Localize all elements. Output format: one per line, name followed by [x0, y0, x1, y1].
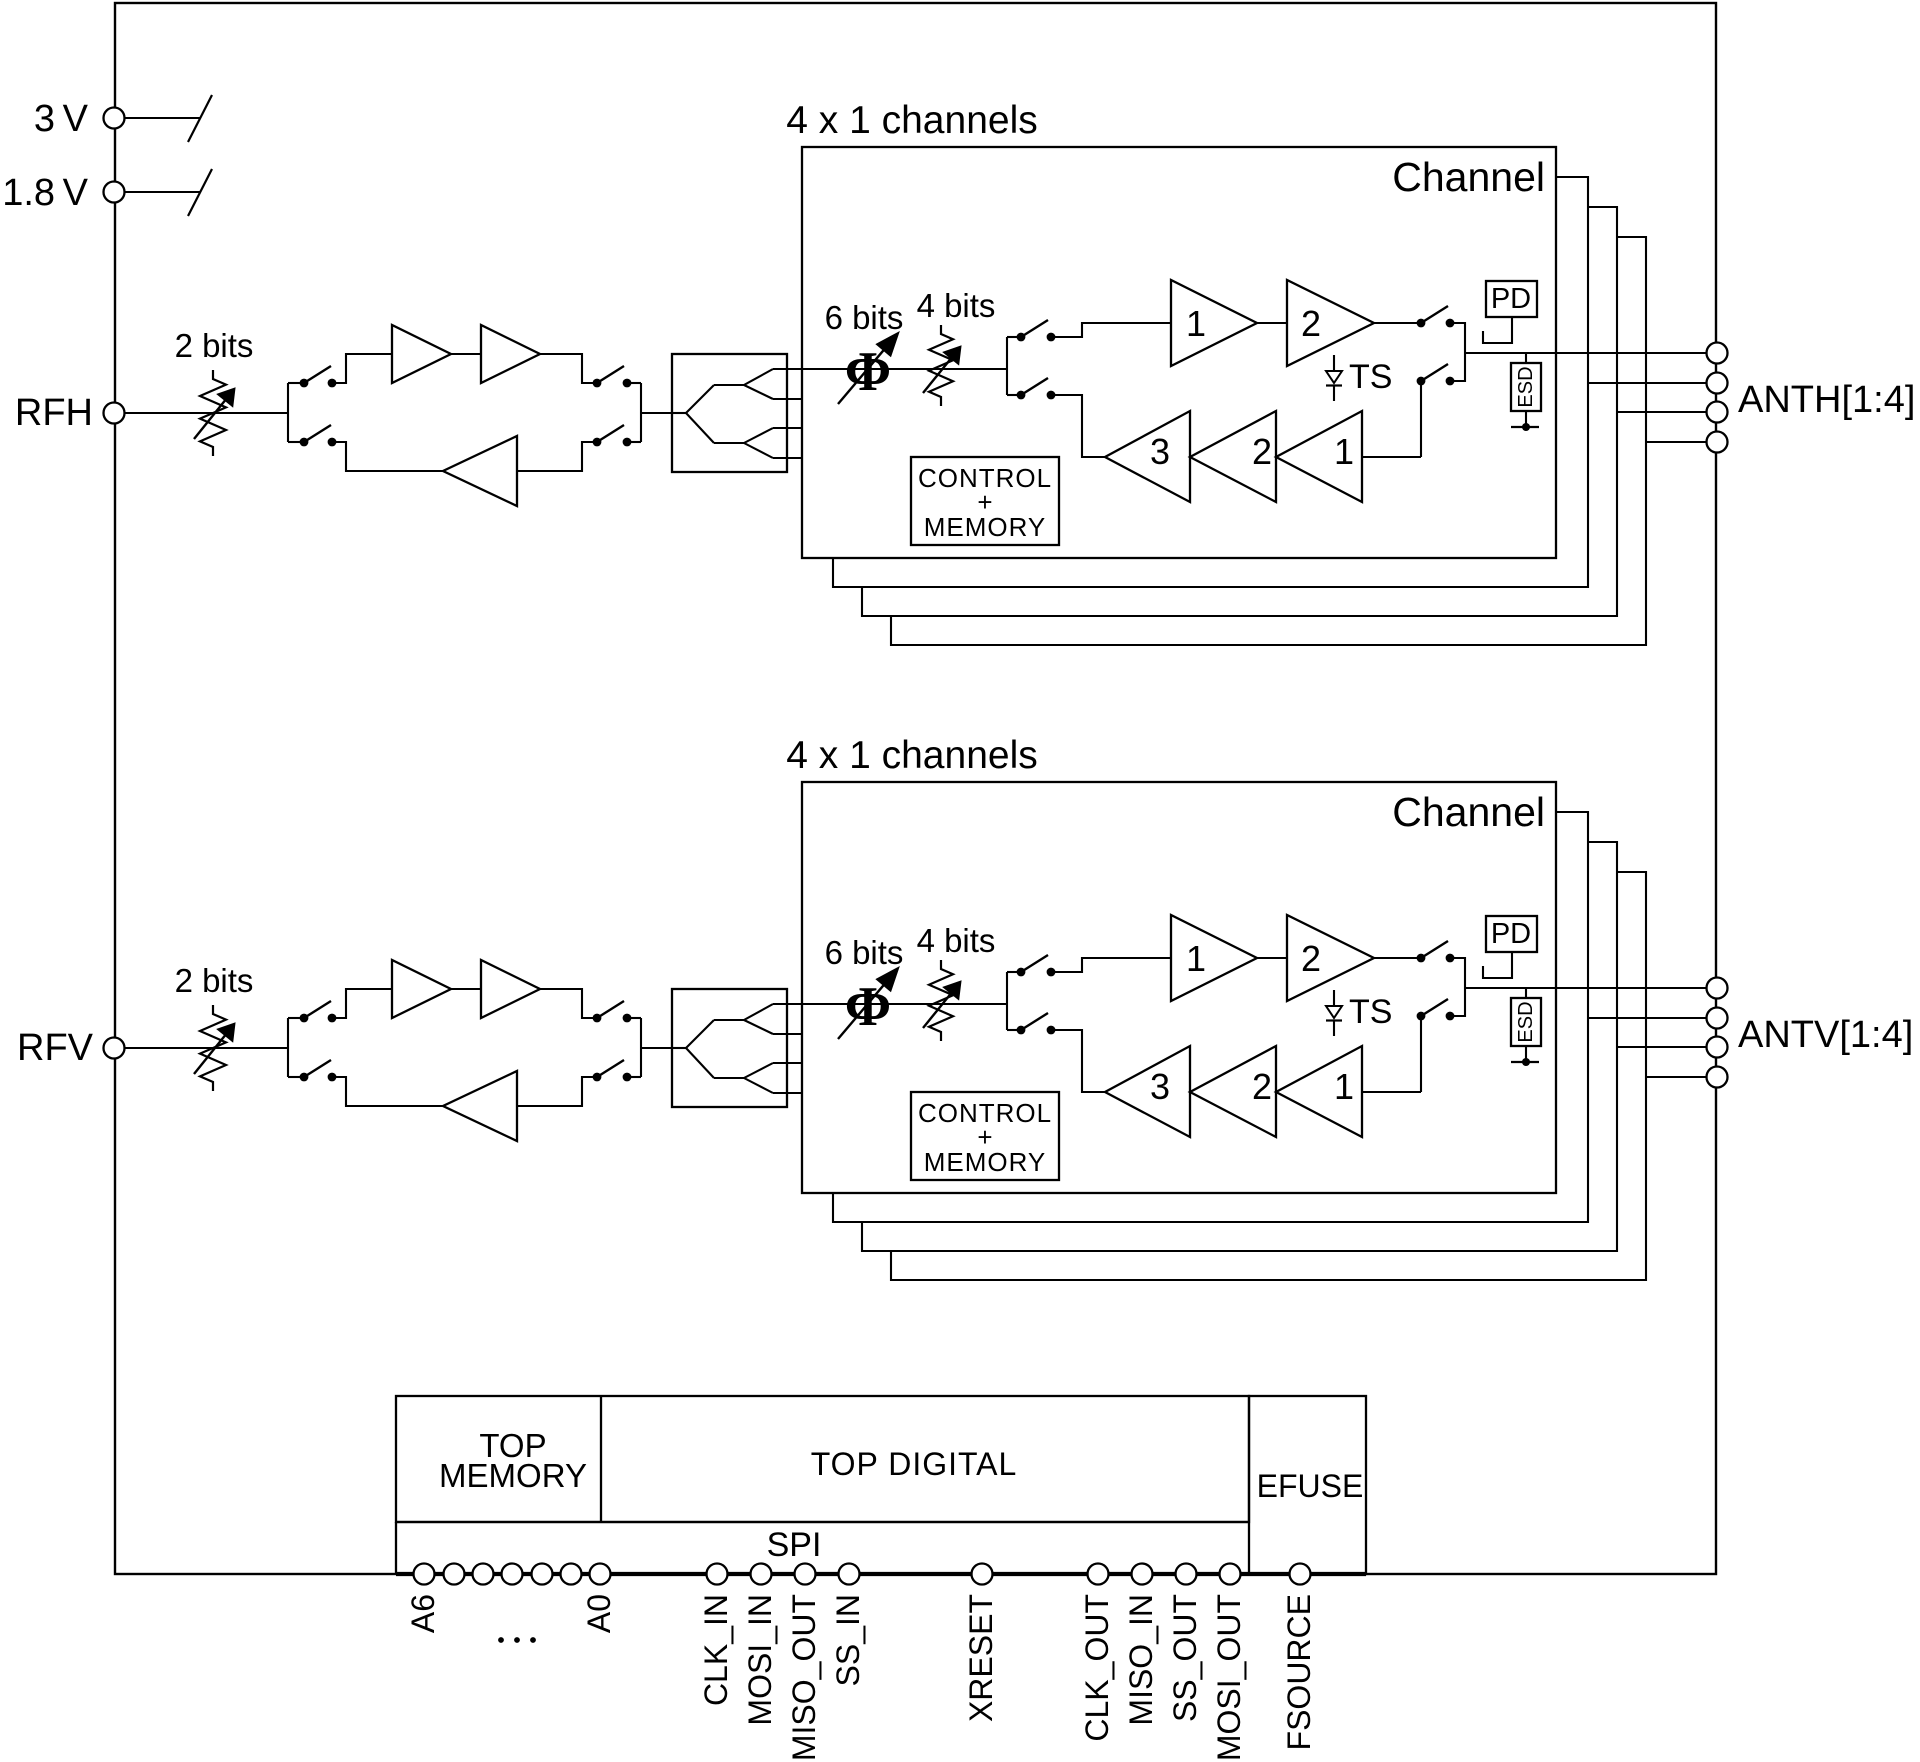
- pin RFH circle: [104, 403, 125, 424]
- svg-text:Channel: Channel: [1392, 154, 1545, 200]
- svg-text:Channel: Channel: [1392, 789, 1545, 835]
- pin ANT2 H: [1707, 373, 1728, 394]
- label FSOURCE: [1281, 1594, 1317, 1750]
- label TOP: [479, 1427, 546, 1464]
- ESD box H: [1511, 363, 1541, 411]
- pin ANT2 V: [1707, 1008, 1728, 1029]
- svg-text:PD: PD: [1491, 918, 1531, 950]
- switch S4 arm H: [597, 425, 624, 442]
- label RX3 '3' H: [1150, 431, 1170, 472]
- label XRESET: [963, 1594, 999, 1722]
- label ESD V: [1515, 1001, 1537, 1042]
- svg-text:1: 1: [1186, 303, 1206, 344]
- switch S3 arm V: [304, 1060, 331, 1077]
- amplifier A2 V: [481, 960, 540, 1018]
- svg-text:4 bits: 4 bits: [917, 287, 996, 324]
- pin A6 circle: [414, 1564, 435, 1585]
- label Channel H: [1392, 154, 1545, 200]
- channel box H: [802, 147, 1556, 558]
- pin ANT4 V: [1707, 1067, 1728, 1088]
- svg-text:SS_OUT: SS_OUT: [1167, 1594, 1203, 1722]
- switch S2 dots V: [593, 1014, 632, 1023]
- switch S1 arm V: [304, 1001, 331, 1018]
- svg-text:3: 3: [1150, 1066, 1170, 1107]
- svg-text:2: 2: [1301, 303, 1321, 344]
- svg-text:2 bits: 2 bits: [175, 962, 254, 999]
- pin 3V circle: [104, 108, 125, 129]
- amplifier A1 H: [392, 325, 451, 383]
- stacked channel 2 H: [833, 177, 1588, 587]
- wire S4 out H: [627, 441, 641, 443]
- channel box V: [802, 782, 1556, 1193]
- ESD box V: [1511, 998, 1541, 1046]
- label RFH: [15, 392, 93, 434]
- wire antenna line 1 H: [1465, 352, 1706, 354]
- label RX1 '1' V: [1334, 1066, 1354, 1107]
- pin 1.8V circle: [104, 182, 125, 203]
- switch S5 arm V: [1021, 955, 1048, 972]
- splitter tree V: [672, 1004, 773, 1093]
- pin XRESET circle: [972, 1564, 993, 1585]
- wire S2 out V: [627, 1017, 641, 1019]
- label dots ...: [498, 1637, 536, 1643]
- switch S1 dots V: [300, 1014, 337, 1023]
- amplifier RX1 V: [1276, 1046, 1362, 1137]
- efuse box: [1249, 1396, 1366, 1574]
- wire ESD stub H: [1525, 353, 1527, 363]
- switch S6 arm H: [1421, 306, 1448, 323]
- label 2 bits V: [175, 962, 254, 999]
- label 6 bits H: [825, 299, 904, 336]
- svg-text:TS: TS: [1349, 993, 1392, 1031]
- attenuator 4-bit V: [923, 960, 961, 1041]
- pin SS_IN circle: [839, 1564, 860, 1585]
- label A0: [581, 1594, 617, 1633]
- switch S4 dots H: [593, 438, 632, 447]
- wire antenna line 4 H: [1646, 441, 1706, 443]
- switch S7 dots V: [1017, 1026, 1056, 1035]
- svg-text:A0: A0: [581, 1594, 617, 1633]
- switch S8 arm V: [1421, 999, 1448, 1016]
- switch S5 arm H: [1021, 320, 1048, 337]
- stacked channel 2 V: [833, 812, 1588, 1222]
- label CLK_OUT: [1079, 1594, 1115, 1742]
- amplifier A1 V: [392, 960, 451, 1018]
- switch S3 arm H: [304, 425, 331, 442]
- attenuator 4-bit H: [923, 325, 961, 406]
- label MEMORY V: [924, 1147, 1047, 1177]
- label TS V: [1349, 993, 1392, 1031]
- wire splitter out4 H: [773, 457, 802, 459]
- svg-text:3: 3: [1150, 431, 1170, 472]
- label SS_OUT: [1167, 1594, 1203, 1722]
- wire TR bottom stub V: [1007, 1029, 1021, 1031]
- pin address circle: [532, 1564, 553, 1585]
- label MISO_OUT: [786, 1594, 822, 1761]
- svg-text:1: 1: [1186, 938, 1206, 979]
- wire S4 out V: [627, 1076, 641, 1078]
- divider top-memory/top-digital: [600, 1396, 602, 1522]
- wire TX1-TX2 V: [1257, 957, 1287, 959]
- svg-text:FSOURCE: FSOURCE: [1281, 1594, 1317, 1750]
- wire antenna line 1 V: [1465, 987, 1706, 989]
- switch S8 dots H: [1417, 377, 1455, 386]
- switch S2 dots H: [593, 379, 632, 388]
- stacked channel 3 V: [862, 842, 1617, 1251]
- wire RX1 in V: [1362, 1091, 1421, 1093]
- svg-text:1: 1: [1334, 431, 1354, 472]
- wire to splitter V: [641, 1047, 672, 1049]
- label RX1 '1' H: [1334, 431, 1354, 472]
- wire S3 to bypass amp H: [332, 442, 443, 471]
- wire S5 to TX amp V: [1051, 958, 1171, 972]
- svg-text:4 x 1 channels: 4 x 1 channels: [786, 734, 1038, 777]
- label TX2 '2' H: [1301, 303, 1321, 344]
- svg-text:1: 1: [1334, 1066, 1354, 1107]
- label MOSI_OUT: [1211, 1594, 1247, 1761]
- switch S2 arm H: [597, 366, 624, 383]
- svg-text:SPI: SPI: [767, 1526, 822, 1564]
- wire TX2 out H: [1374, 322, 1421, 324]
- pin A0 circle: [590, 1564, 611, 1585]
- amplifier RX2 V: [1190, 1046, 1276, 1137]
- wire stub V: [288, 1017, 304, 1019]
- pin ANT3 V: [1707, 1037, 1728, 1058]
- wire splitter out3 H: [773, 427, 802, 429]
- svg-text:EFUSE: EFUSE: [1257, 1468, 1364, 1504]
- label MEMORY H: [924, 512, 1047, 542]
- svg-text:2: 2: [1301, 938, 1321, 979]
- wire A3 in H: [517, 442, 597, 471]
- label SPI: [767, 1526, 822, 1564]
- pin address circle: [502, 1564, 523, 1585]
- wire S6 to node V: [1450, 958, 1465, 988]
- label PD H: [1491, 283, 1531, 315]
- wire stub bottom H: [288, 441, 304, 443]
- label MEMORY (top): [439, 1457, 587, 1494]
- label RX3 '3' V: [1150, 1066, 1170, 1107]
- diode TS V: [1326, 990, 1342, 1036]
- svg-text:MISO_OUT: MISO_OUT: [786, 1594, 822, 1761]
- power detector PD box H: [1486, 281, 1537, 317]
- svg-text:MOSI_OUT: MOSI_OUT: [1211, 1594, 1247, 1761]
- switch S7 arm V: [1021, 1013, 1048, 1030]
- amplifier RX3 H: [1105, 411, 1190, 502]
- switch S5 dots V: [1017, 968, 1056, 977]
- label Channel V: [1392, 789, 1545, 835]
- svg-text:CLK_OUT: CLK_OUT: [1079, 1594, 1115, 1742]
- pin MISO_IN circle: [1132, 1564, 1153, 1585]
- stacked channel 4 V: [891, 872, 1646, 1280]
- wire stub TR top H: [1007, 336, 1021, 338]
- label plus V: [977, 1122, 992, 1152]
- pin ANT1 H: [1707, 343, 1728, 364]
- stacked channel 3 H: [862, 207, 1617, 616]
- label PD V: [1491, 918, 1531, 950]
- label 4 x 1 channels V: [786, 734, 1038, 777]
- svg-text:TOP DIGITAL: TOP DIGITAL: [811, 1446, 1018, 1482]
- switch S4 arm V: [597, 1060, 624, 1077]
- label CONTROL H: [918, 463, 1052, 493]
- label SS_IN: [830, 1594, 866, 1686]
- label 2 bits H: [175, 327, 254, 364]
- wire A2 out V: [540, 989, 597, 1018]
- wire antenna line 4 V: [1646, 1076, 1706, 1078]
- label RX2 '2' V: [1252, 1066, 1272, 1107]
- wire to splitter H: [641, 412, 672, 414]
- label TX2 '2' V: [1301, 938, 1321, 979]
- ground V: [1511, 1058, 1539, 1066]
- svg-text:1.8 V: 1.8 V: [2, 172, 88, 214]
- switch block right vertical V: [640, 1018, 642, 1077]
- wire S8 to node H: [1450, 353, 1465, 381]
- wire S8 to node V: [1450, 988, 1465, 1016]
- wire RX riser H: [1420, 381, 1422, 457]
- switch S3 dots H: [300, 438, 337, 447]
- control memory box H: [911, 457, 1059, 545]
- label 4 bits V: [917, 922, 996, 959]
- wire TX1-TX2 H: [1257, 322, 1287, 324]
- wire A2 out H: [540, 354, 597, 383]
- PD probe hook H: [1483, 317, 1512, 343]
- wire ESD to ground V: [1525, 1046, 1527, 1062]
- wire S7 to RX amp H: [1051, 395, 1105, 457]
- label TS H: [1349, 358, 1392, 396]
- amplifier A3 bypass H: [443, 436, 517, 506]
- wire 1.8V stub: [125, 191, 200, 193]
- wire antenna line 2 V: [1588, 1017, 1706, 1019]
- switch S8 dots V: [1417, 1012, 1455, 1021]
- wire RFH input: [125, 412, 288, 414]
- wire A1-A2 V: [451, 988, 481, 990]
- svg-text:MISO_IN: MISO_IN: [1123, 1594, 1159, 1726]
- svg-text:SS_IN: SS_IN: [830, 1594, 866, 1686]
- wire S1 to amp H: [332, 354, 392, 383]
- spi bar: [396, 1522, 1249, 1574]
- stacked channel 4 H: [891, 237, 1646, 645]
- pin address circle: [561, 1564, 582, 1585]
- pin CLK_IN circle: [707, 1564, 728, 1585]
- wire antenna line 3 V: [1617, 1046, 1706, 1048]
- attenuator 2-bit H: [194, 370, 235, 456]
- svg-text:4 x 1 channels: 4 x 1 channels: [786, 99, 1038, 142]
- label ANTH[1:4] H: [1738, 379, 1915, 421]
- wire S1 to amp V: [332, 989, 392, 1018]
- pin MOSI_OUT circle: [1220, 1564, 1241, 1585]
- svg-text:2 bits: 2 bits: [175, 327, 254, 364]
- phase shifter V: [838, 967, 899, 1039]
- wire S3 to bypass amp V: [332, 1077, 443, 1106]
- wire RX riser V: [1420, 1016, 1422, 1092]
- svg-text:2: 2: [1252, 431, 1272, 472]
- label CLK_IN: [698, 1594, 734, 1706]
- amplifier RX1 H: [1276, 411, 1362, 502]
- switch S3 dots V: [300, 1073, 337, 1082]
- pin CLK_OUT circle: [1088, 1564, 1109, 1585]
- svg-text:XRESET: XRESET: [963, 1594, 999, 1722]
- svg-text:ESD: ESD: [1515, 1001, 1537, 1042]
- PD probe hook V: [1483, 952, 1512, 978]
- wire S5 to TX amp H: [1051, 323, 1171, 337]
- bus slash 1.8V: [188, 169, 212, 216]
- svg-text:CLK_IN: CLK_IN: [698, 1594, 734, 1706]
- pin ANT1 V: [1707, 978, 1728, 999]
- TR switch vertical V: [1006, 972, 1008, 1030]
- label TX1 '1' H: [1186, 303, 1206, 344]
- switch S6 arm V: [1421, 941, 1448, 958]
- label A6: [405, 1594, 441, 1633]
- pin MOSI_IN circle: [751, 1564, 772, 1585]
- bus slash 3V: [188, 95, 212, 142]
- pin ANT3 H: [1707, 402, 1728, 423]
- switch S2 arm V: [597, 1001, 624, 1018]
- wire RX1 in H: [1362, 456, 1421, 458]
- wire A3 in V: [517, 1077, 597, 1106]
- pin address circle: [444, 1564, 465, 1585]
- label 1.8 V: [2, 172, 88, 214]
- label 4 x 1 channels H: [786, 99, 1038, 142]
- switch S1 dots H: [300, 379, 337, 388]
- wire S2 out H: [627, 382, 641, 384]
- svg-text:MEMORY: MEMORY: [439, 1457, 587, 1494]
- wire splitter out1 H: [773, 368, 802, 370]
- wire TX2 out V: [1374, 957, 1421, 959]
- switch block left vertical H: [287, 383, 289, 442]
- switch S7 arm H: [1021, 378, 1048, 395]
- svg-text:ANTH[1:4]: ANTH[1:4]: [1738, 379, 1915, 421]
- wire RFV input: [125, 1047, 288, 1049]
- switch S8 arm H: [1421, 364, 1448, 381]
- label plus H: [977, 487, 992, 517]
- wire stub H: [288, 382, 304, 384]
- svg-text:4 bits: 4 bits: [917, 922, 996, 959]
- svg-text:PD: PD: [1491, 283, 1531, 315]
- amplifier RX3 V: [1105, 1046, 1190, 1137]
- label 3 V: [34, 98, 89, 140]
- pin FSOURCE circle: [1290, 1564, 1311, 1585]
- switch S7 dots H: [1017, 391, 1056, 400]
- diode TS H: [1326, 355, 1342, 401]
- svg-text:ESD: ESD: [1515, 366, 1537, 407]
- control memory box V: [911, 1092, 1059, 1180]
- wire ESD to ground H: [1525, 411, 1527, 427]
- label ESD H: [1515, 366, 1537, 407]
- svg-text:RFV: RFV: [17, 1027, 94, 1069]
- label RFV: [17, 1027, 94, 1069]
- pin address circle: [473, 1564, 494, 1585]
- label ANTV[1:4] V: [1738, 1014, 1913, 1056]
- amplifier RX2 H: [1190, 411, 1276, 502]
- phase shifter H: [838, 332, 899, 404]
- splitter box V: [672, 989, 787, 1107]
- splitter tree H: [672, 369, 773, 458]
- thick bottom edge: [396, 1572, 1366, 1576]
- wire splitter out4 V: [773, 1092, 802, 1094]
- amplifier TX1 H: [1171, 280, 1257, 366]
- wire TR bottom stub H: [1007, 394, 1021, 396]
- svg-text:6 bits: 6 bits: [825, 299, 904, 336]
- svg-text:2: 2: [1252, 1066, 1272, 1107]
- wire splitter out2 V: [773, 1033, 802, 1035]
- svg-text:TS: TS: [1349, 358, 1392, 396]
- chip boundary: [115, 3, 1716, 1574]
- switch S4 dots V: [593, 1073, 632, 1082]
- svg-text:ANTV[1:4]: ANTV[1:4]: [1738, 1014, 1913, 1056]
- amplifier A3 bypass V: [443, 1071, 517, 1141]
- svg-text:MEMORY: MEMORY: [924, 512, 1047, 542]
- label 4 bits H: [917, 287, 996, 324]
- wire antenna line 2 H: [1588, 382, 1706, 384]
- pin SS_OUT circle: [1176, 1564, 1197, 1585]
- pin MISO_OUT circle: [795, 1564, 816, 1585]
- wire S7 to RX amp V: [1051, 1030, 1105, 1092]
- pin RFV circle: [104, 1038, 125, 1059]
- switch block right vertical H: [640, 383, 642, 442]
- amplifier A2 H: [481, 325, 540, 383]
- wire ESD stub V: [1525, 988, 1527, 998]
- switch S1 arm H: [304, 366, 331, 383]
- ground H: [1511, 423, 1539, 431]
- attenuator 2-bit V: [194, 1005, 235, 1091]
- svg-text:3 V: 3 V: [34, 98, 89, 140]
- label EFUSE: [1257, 1468, 1364, 1504]
- amplifier TX2 H: [1287, 280, 1374, 366]
- label TX1 '1' V: [1186, 938, 1206, 979]
- wire splitter out1 V: [773, 1003, 802, 1005]
- label 6 bits V: [825, 934, 904, 971]
- wire S6 to node H: [1450, 323, 1465, 353]
- label TOP DIGITAL: [811, 1446, 1018, 1482]
- amplifier TX1 V: [1171, 915, 1257, 1001]
- switch S5 dots H: [1017, 333, 1056, 342]
- wire channel input H: [802, 368, 1007, 370]
- wire channel input V: [802, 1003, 1007, 1005]
- svg-text:A6: A6: [405, 1594, 441, 1633]
- label CONTROL V: [918, 1098, 1052, 1128]
- svg-text:RFH: RFH: [15, 392, 93, 434]
- svg-text:6 bits: 6 bits: [825, 934, 904, 971]
- wire stub TR top V: [1007, 971, 1021, 973]
- switch block left vertical V: [287, 1018, 289, 1077]
- wire 3V stub: [125, 117, 200, 119]
- wire stub bottom V: [288, 1076, 304, 1078]
- TR switch vertical H: [1006, 337, 1008, 395]
- label MISO_IN: [1123, 1594, 1159, 1726]
- svg-text:MEMORY: MEMORY: [924, 1147, 1047, 1177]
- splitter box H: [672, 354, 787, 472]
- wire A1-A2 H: [451, 353, 481, 355]
- top memory box: [396, 1396, 1249, 1522]
- svg-text:MOSI_IN: MOSI_IN: [742, 1594, 778, 1726]
- amplifier TX2 V: [1287, 915, 1374, 1001]
- wire splitter out3 V: [773, 1062, 802, 1064]
- switch S6 dots V: [1417, 954, 1455, 963]
- pin ANT4 H: [1707, 432, 1728, 453]
- power detector PD box V: [1486, 916, 1537, 952]
- switch S6 dots H: [1417, 319, 1455, 328]
- label MOSI_IN: [742, 1594, 778, 1726]
- wire antenna line 3 H: [1617, 411, 1706, 413]
- label RX2 '2' H: [1252, 431, 1272, 472]
- wire splitter out2 H: [773, 398, 802, 400]
